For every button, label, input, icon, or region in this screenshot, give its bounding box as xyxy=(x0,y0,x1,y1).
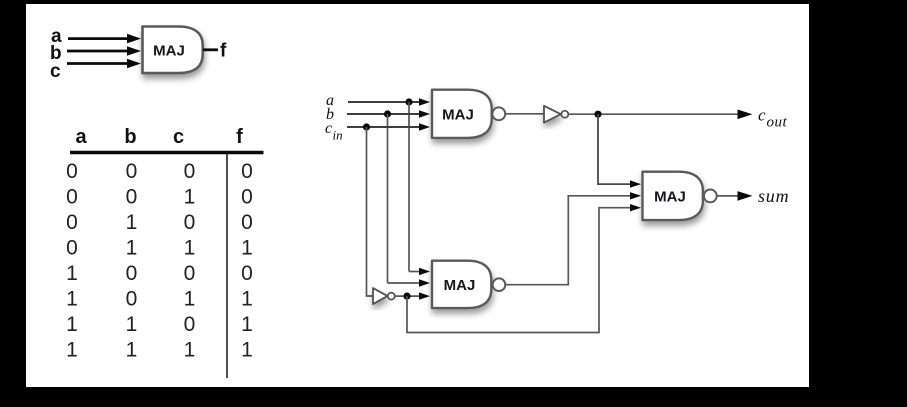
wire b vertical drop xyxy=(387,114,389,283)
wire b into symbol gate xyxy=(67,46,141,56)
svg-text:0: 0 xyxy=(184,313,196,336)
svg-text:1: 1 xyxy=(184,339,196,362)
truth table rows xyxy=(66,160,253,362)
svg-text:1: 1 xyxy=(66,313,78,336)
svg-text:in: in xyxy=(333,128,343,143)
svg-text:1: 1 xyxy=(241,288,253,311)
node: junction dot on b xyxy=(384,110,391,117)
truth table header a b c f xyxy=(75,126,243,148)
truth table header underline xyxy=(70,151,264,154)
node: junction dot on a xyxy=(405,98,412,105)
svg-text:c: c xyxy=(325,120,332,137)
svg-text:1: 1 xyxy=(66,339,78,362)
wire from node after U5 to sum gate input 3 xyxy=(407,204,641,333)
wire a vertical drop xyxy=(408,102,410,272)
svg-text:out: out xyxy=(767,115,788,131)
wire a horizontal xyxy=(348,98,430,105)
svg-text:a: a xyxy=(75,126,87,148)
svg-text:1: 1 xyxy=(126,237,138,260)
svg-text:1: 1 xyxy=(241,339,253,362)
svg-text:MAJ: MAJ xyxy=(654,188,686,205)
svg-text:c: c xyxy=(758,106,766,125)
svg-text:0: 0 xyxy=(241,211,253,234)
svg-text:MAJ: MAJ xyxy=(442,106,474,123)
svg-text:1: 1 xyxy=(126,339,138,362)
svg-text:0: 0 xyxy=(66,160,78,183)
truth table row 8: 1 1 1 1 xyxy=(66,339,253,362)
svg-text:f: f xyxy=(236,126,243,148)
svg-text:1: 1 xyxy=(66,288,78,311)
svg-text:0: 0 xyxy=(184,262,196,285)
svg-text:0: 0 xyxy=(66,211,78,234)
wire into U3 input 1 (from a drop) xyxy=(409,268,430,275)
svg-text:1: 1 xyxy=(241,237,253,260)
circuit input label c_in xyxy=(325,120,343,143)
truth table row 3: 0 1 0 0 xyxy=(66,211,253,234)
svg-text:0: 0 xyxy=(184,211,196,234)
U3 output bubble xyxy=(493,278,506,291)
truth table row 2: 0 0 1 0 xyxy=(66,186,253,209)
wire a into symbol gate xyxy=(68,34,141,44)
node: junction dot after U5 xyxy=(403,293,410,300)
wire c into symbol gate xyxy=(67,59,141,69)
svg-text:0: 0 xyxy=(126,288,138,311)
wire c_in horizontal xyxy=(347,123,430,130)
svg-text:MAJ: MAJ xyxy=(153,42,185,59)
truth table row 6: 1 0 1 1 xyxy=(66,288,253,311)
wire f output of symbol gate xyxy=(203,48,218,51)
svg-text:0: 0 xyxy=(241,160,253,183)
inverter U2 xyxy=(544,106,568,123)
output label c_out xyxy=(758,106,788,131)
svg-text:1: 1 xyxy=(126,313,138,336)
wire into U3 input 2 (from b drop) xyxy=(388,279,431,286)
svg-text:c: c xyxy=(173,126,184,148)
svg-text:MAJ: MAJ xyxy=(444,277,476,294)
wire U5 to U3 input 3 xyxy=(395,292,430,299)
wire b horizontal xyxy=(347,110,430,117)
svg-text:c: c xyxy=(50,61,61,82)
truth table row 1: 0 0 0 0 xyxy=(66,160,253,183)
svg-text:0: 0 xyxy=(241,262,253,285)
U4 output bubble xyxy=(704,190,717,203)
wire U3 bubble to sum gate input 2 xyxy=(505,192,641,285)
majority gate U3 (bottom MAJ) xyxy=(432,261,491,308)
svg-text:1: 1 xyxy=(184,237,196,260)
svg-text:1: 1 xyxy=(126,211,138,234)
svg-text:1: 1 xyxy=(66,262,78,285)
U1 output bubble xyxy=(492,107,505,120)
svg-text:0: 0 xyxy=(126,160,138,183)
svg-text:0: 0 xyxy=(126,186,138,209)
svg-text:b: b xyxy=(124,126,136,148)
majority gate symbol MAJ xyxy=(143,27,203,74)
svg-text:sum: sum xyxy=(758,186,789,206)
svg-text:1: 1 xyxy=(184,186,196,209)
majority gate U1 (top MAJ) xyxy=(432,90,492,138)
svg-text:0: 0 xyxy=(184,160,196,183)
inverter U5 (c_in inverter) xyxy=(373,288,395,304)
wire U1 bubble to inverter U2 xyxy=(505,113,544,115)
svg-text:0: 0 xyxy=(126,262,138,285)
node: junction dot after U2 xyxy=(594,111,601,118)
svg-text:1: 1 xyxy=(241,313,253,336)
truth table row 4: 0 1 1 1 xyxy=(66,237,253,260)
node: junction dot on c_in xyxy=(363,123,370,130)
majority gate U4 (sum MAJ) xyxy=(643,172,703,220)
svg-text:0: 0 xyxy=(66,186,78,209)
wire U2 to c_out arrow xyxy=(568,110,752,120)
wire U4 bubble to sum arrow xyxy=(717,191,753,201)
truth table row 7: 1 1 0 1 xyxy=(66,313,253,336)
wire c_in vertical drop to inverter xyxy=(367,127,374,296)
truth table row 5: 1 0 0 0 xyxy=(66,262,253,285)
svg-text:f: f xyxy=(220,41,227,62)
svg-text:0: 0 xyxy=(241,186,253,209)
truth table column separator (c|f) xyxy=(226,153,228,378)
svg-text:0: 0 xyxy=(66,237,78,260)
svg-text:1: 1 xyxy=(184,288,196,311)
wire from node after U2 down to sum gate input 1 xyxy=(598,114,641,188)
